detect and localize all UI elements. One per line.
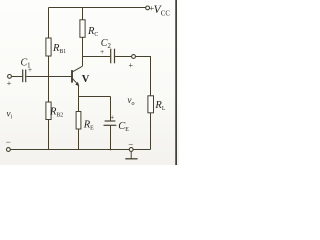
resistor RB1 (46, 38, 51, 56)
transistor V collector lead (72, 66, 82, 72)
junction CE bottom node (110, 149, 112, 151)
svg-text:CE: CE (118, 121, 129, 133)
wire RB1 to base node (48, 56, 50, 77)
terminal ground circle (129, 148, 133, 152)
svg-text:+: + (100, 47, 104, 56)
svg-text:RB1: RB1 (52, 43, 66, 55)
terminal Vcc circle (146, 6, 150, 10)
wire RL to bottom rail (150, 113, 152, 150)
terminal input bottom circle (6, 148, 10, 152)
wire emitter node to CE branch (79, 96, 111, 98)
capacitor C1 (23, 70, 26, 83)
svg-text:+: + (7, 79, 12, 88)
svg-text:V: V (82, 74, 90, 85)
terminal input top circle (8, 75, 12, 79)
wire RE branch (78, 97, 80, 112)
svg-text:RE: RE (83, 120, 94, 132)
wire RB2 branch (48, 77, 50, 103)
wire R_C branch top (82, 8, 84, 20)
svg-text:CC: CC (161, 11, 171, 18)
svg-text:RC: RC (87, 26, 98, 38)
svg-text:vo: vo (128, 95, 135, 107)
wire CE to bottom rail (110, 126, 112, 150)
ground stub (130, 152, 132, 159)
wire emitter down (78, 85, 80, 96)
capacitor C2 (111, 49, 115, 64)
resistor RC (80, 20, 85, 38)
svg-text:RL: RL (154, 100, 165, 112)
svg-text:+: + (110, 113, 114, 122)
wire output terminal to right corner (135, 57, 150, 96)
wire CE branch down (110, 97, 112, 121)
transistor V base bar (71, 70, 73, 83)
wire input to C1 (11, 76, 22, 78)
terminal output circle (132, 55, 136, 59)
svg-text:+: + (28, 65, 32, 74)
svg-text:+: + (129, 61, 134, 70)
resistor RB2 (46, 102, 51, 120)
wire top rail (49, 7, 146, 9)
capacitor CE (104, 121, 117, 125)
page rule right edge (175, 0, 176, 165)
wire RE to bottom rail (78, 129, 80, 150)
junction base node (48, 76, 50, 78)
wire RC to collector (82, 37, 84, 66)
svg-text:RB2: RB2 (49, 107, 63, 119)
wire RB2 to bottom rail (48, 120, 50, 150)
svg-text:−: − (6, 137, 11, 147)
svg-text:vi: vi (7, 109, 13, 121)
wire C1 to base (26, 76, 71, 78)
wire collector junction to C2 (83, 56, 111, 58)
resistor RE (76, 112, 81, 130)
wire left branch upper (Vcc to RB1) (48, 8, 50, 39)
wire C2 to output terminal (115, 56, 132, 58)
ground bar (125, 158, 137, 160)
svg-text:−: − (128, 139, 133, 149)
transistor V emitter lead (72, 78, 78, 85)
resistor RL (148, 96, 154, 113)
wire bottom rail (10, 149, 150, 151)
transistor V emitter arrowhead (75, 82, 79, 86)
